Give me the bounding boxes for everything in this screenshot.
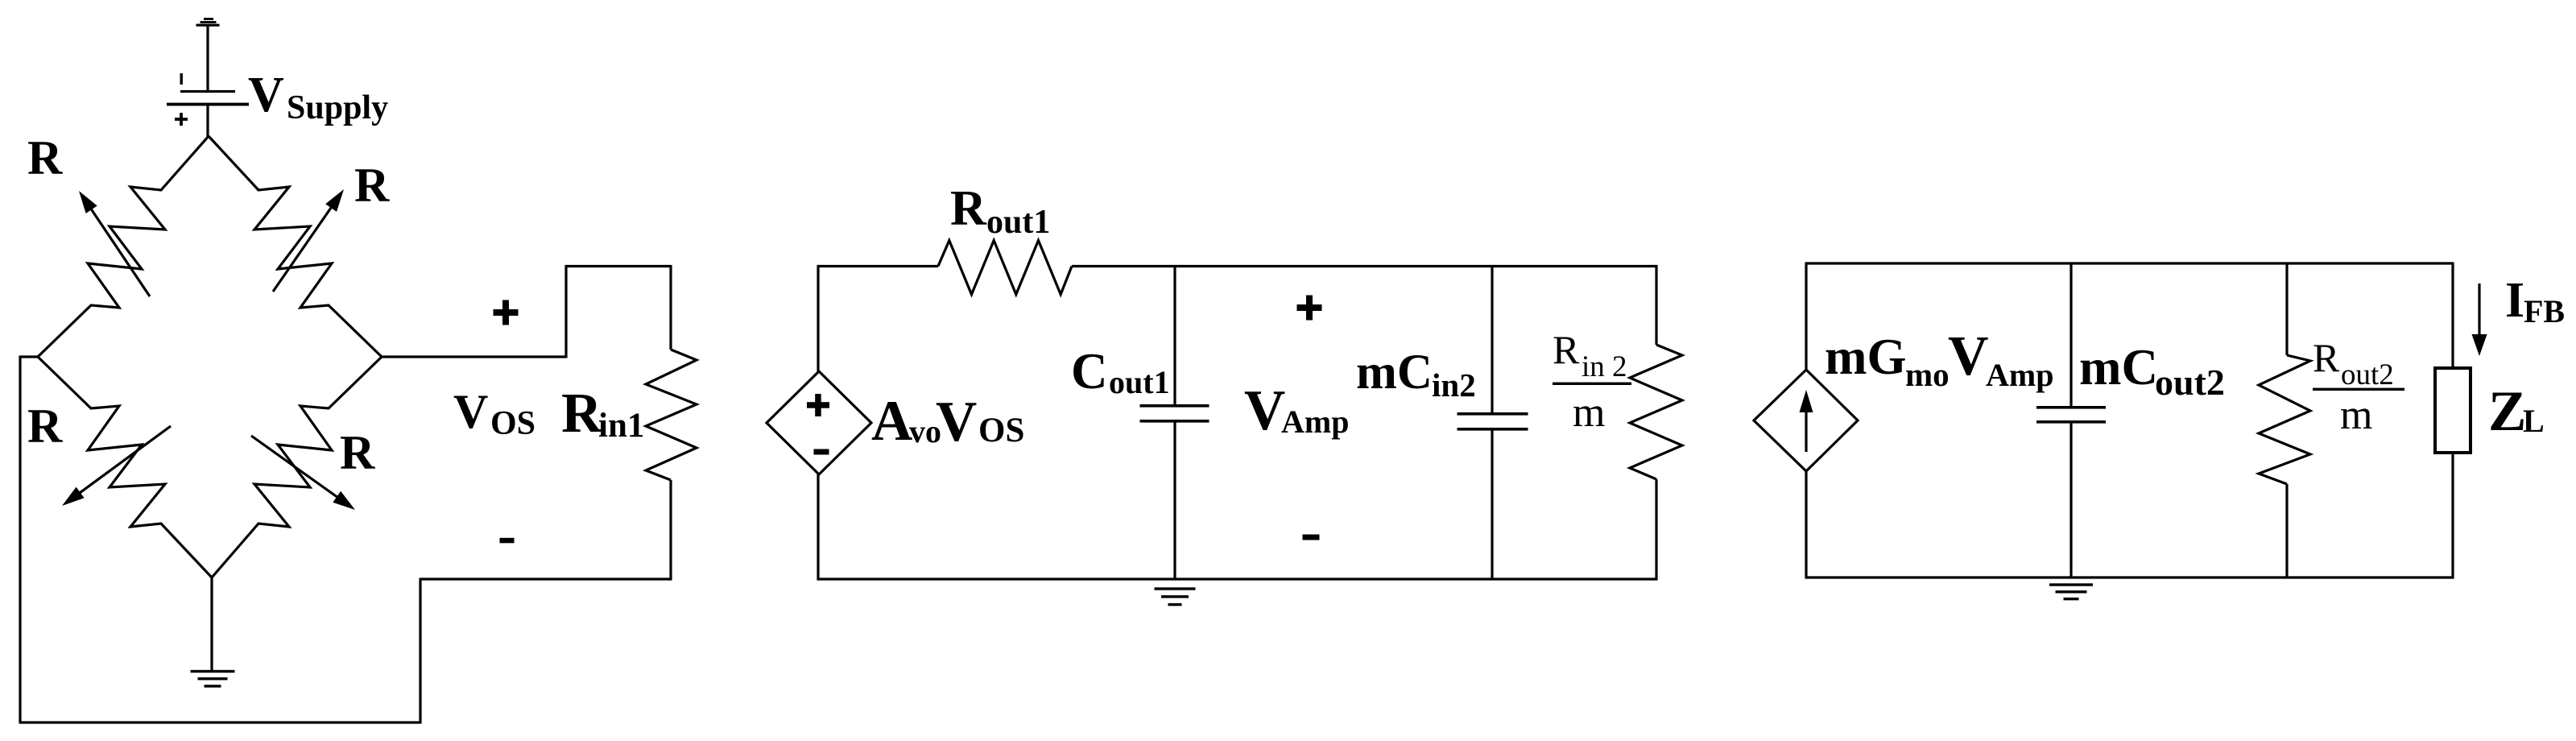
svg-text:R: R <box>27 399 63 453</box>
svg-text:Supply: Supply <box>287 89 388 126</box>
wire mC_in2 top <box>1491 267 1493 412</box>
svg-text:V: V <box>248 68 284 122</box>
resistor R_out2/m <box>2259 263 2310 577</box>
wire left vertical (minus return) <box>19 356 21 723</box>
resistor R (bridge upper-right) <box>209 136 382 357</box>
svg-text:R: R <box>340 426 375 479</box>
label R upper-right <box>354 159 390 212</box>
svg-text:FB: FB <box>2524 293 2565 329</box>
label - (V_OS minus) <box>500 538 515 544</box>
svg-text:m: m <box>2340 392 2372 438</box>
svg-text:V: V <box>1244 379 1285 442</box>
label R_out1 <box>950 181 1050 241</box>
label V_OS <box>453 385 535 442</box>
wire up to minus rail <box>419 579 421 724</box>
label C_out1 <box>1071 343 1170 400</box>
arrow I_FB <box>2472 284 2487 356</box>
battery plus mark <box>175 113 188 126</box>
label V_Amp <box>1244 379 1349 442</box>
wire left vertex stub <box>20 355 38 358</box>
svg-text:OS: OS <box>490 405 535 442</box>
arrow inside current source <box>1800 390 1813 452</box>
svg-text:R: R <box>1553 327 1580 372</box>
arrow on upper-right R <box>273 189 344 292</box>
svg-text:R: R <box>354 159 390 212</box>
svg-text:C: C <box>1071 343 1108 399</box>
dependent current source mG_mo*V_Amp diamond <box>1754 370 1858 471</box>
svg-text:L: L <box>2523 403 2545 439</box>
label R_out2 over m (fraction) <box>2313 335 2404 438</box>
ground (middle, below C_out1) <box>1155 587 1196 606</box>
svg-text:V: V <box>453 385 488 438</box>
svg-text:R: R <box>950 181 987 236</box>
label R_in1 <box>561 383 644 445</box>
wire middle left top <box>817 267 819 373</box>
arrow on upper-left R <box>79 191 150 296</box>
resistor R_in2/m <box>1630 265 1682 581</box>
wire right section left top <box>1805 263 1807 370</box>
svg-text:R: R <box>561 383 603 445</box>
arrow on lower-left R <box>62 426 171 506</box>
wire right top rail <box>1805 262 2454 264</box>
svg-text:in 2: in 2 <box>1582 350 1627 383</box>
label R lower-right <box>340 426 375 479</box>
ground (right, below mC_out2) <box>2049 583 2093 600</box>
label + (V_Amp plus) <box>1297 296 1322 321</box>
svg-text:V: V <box>1948 325 1989 387</box>
wire from rail symbol to battery <box>206 26 209 90</box>
wire top to R_in1 <box>565 265 672 267</box>
wire C_out1 top <box>1173 267 1176 404</box>
svg-text:V: V <box>936 391 977 453</box>
wire plus node up <box>564 266 567 358</box>
svg-text:in1: in1 <box>598 407 644 445</box>
label - (V_Amp minus) <box>1303 535 1320 540</box>
svg-text:R: R <box>27 131 63 184</box>
wire right bottom rail <box>1805 576 2454 578</box>
wire bottom return <box>19 721 421 723</box>
label mC_in2 <box>1356 346 1476 404</box>
wire bridge right vertex to plus node <box>382 355 566 358</box>
svg-text:out2: out2 <box>2155 362 2225 403</box>
svg-text:I: I <box>2505 273 2524 328</box>
capacitor C_out1 <box>1140 404 1209 423</box>
label R lower-left <box>27 399 63 453</box>
svg-text:mo: mo <box>1905 356 1950 393</box>
wire Z_L top <box>2451 263 2454 369</box>
load impedance Z_L box <box>2435 368 2471 453</box>
svg-text:Z: Z <box>2488 380 2526 443</box>
label I_FB <box>2505 273 2565 329</box>
label Z_L <box>2488 380 2545 443</box>
label V_Supply <box>248 68 388 126</box>
plus inside source <box>807 394 829 416</box>
svg-text:mC: mC <box>2079 339 2158 395</box>
svg-text:mC: mC <box>1356 346 1433 399</box>
label + (V_OS plus) <box>494 300 519 325</box>
resistor R (bridge lower-left) <box>38 357 212 577</box>
power rail symbol (inverted ground) above V_Supply <box>196 18 220 27</box>
label A_vo_V_OS <box>871 390 1024 453</box>
resistor R (bridge lower-right) <box>212 357 382 577</box>
svg-text:mG: mG <box>1825 329 1906 385</box>
battery minus mark <box>180 73 183 85</box>
wire right section left bottom <box>1805 470 1807 579</box>
wire top rail R_out1 to right edge <box>1072 265 1658 267</box>
svg-text:out1: out1 <box>1109 364 1170 400</box>
arrow on lower-right R <box>251 436 355 510</box>
wire mC_out2 top <box>2069 265 2072 407</box>
wire middle left bottom <box>817 474 819 581</box>
label mG_mo_V_Amp <box>1825 325 2053 393</box>
svg-text:out1: out1 <box>986 204 1050 241</box>
wire mC_in2 bottom <box>1491 430 1493 579</box>
resistor R (bridge upper-left) <box>38 136 209 357</box>
resistor R_out1 <box>938 241 1072 295</box>
wire mC_out2 bottom <box>2069 423 2072 577</box>
resistor R_in1 <box>646 265 697 581</box>
svg-text:m: m <box>1573 390 1605 436</box>
ground (bridge bottom) <box>191 670 235 688</box>
label R upper-left <box>27 131 63 184</box>
svg-text:Amp: Amp <box>1281 404 1349 440</box>
svg-text:A: A <box>871 390 912 453</box>
capacitor mC_out2 <box>2036 406 2106 424</box>
wire bridge bottom node to ground <box>210 577 213 670</box>
label mC_out2 <box>2079 339 2225 403</box>
wire Z_L bottom <box>2451 453 2454 579</box>
svg-text:Amp: Amp <box>1986 357 2053 393</box>
label R_in2 over m (fraction) <box>1553 327 1631 436</box>
minus inside source <box>814 449 829 455</box>
svg-text:out2: out2 <box>2341 358 2394 391</box>
wire minus rail to R_in1 bottom <box>420 577 672 580</box>
capacitor mC_in2 <box>1458 412 1528 431</box>
wire top rail left of R_out1 <box>817 265 939 267</box>
svg-text:in2: in2 <box>1432 366 1476 404</box>
wire battery to bridge top node <box>206 106 209 137</box>
battery V_Supply plates <box>167 90 249 106</box>
svg-text:R: R <box>2313 335 2340 380</box>
wire C_out1 bottom <box>1173 422 1176 579</box>
svg-text:OS: OS <box>978 412 1024 449</box>
wire middle bottom rail <box>817 577 1658 580</box>
dependent voltage source A_vo*V_OS diamond <box>767 371 871 474</box>
